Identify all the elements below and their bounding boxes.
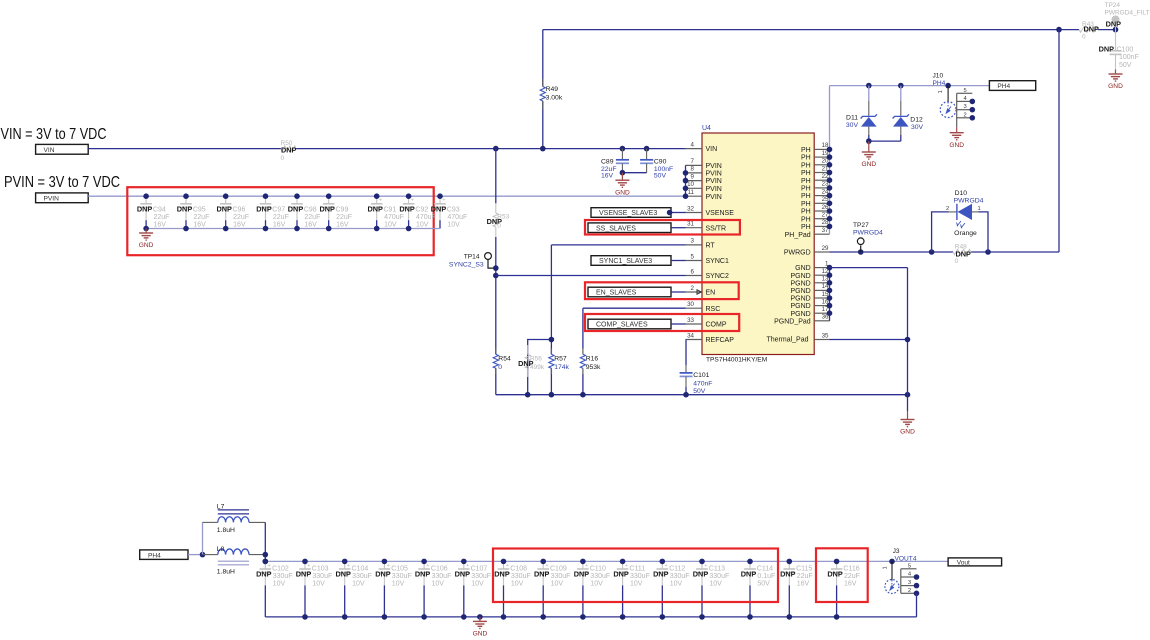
svg-text:PWRGD4_FILT: PWRGD4_FILT [1105,10,1150,17]
svg-text:C107: C107 [471,566,488,573]
svg-text:PVIN: PVIN [706,171,722,178]
svg-text:30: 30 [687,301,694,308]
svg-text:5: 5 [908,563,911,569]
svg-text:L8: L8 [217,546,225,553]
svg-text:DNP: DNP [216,204,232,213]
svg-text:10V: 10V [709,581,722,588]
net label SS_SLAVES [588,223,686,233]
svg-text:+: + [625,563,628,569]
net label COMP_SLAVES [588,319,686,329]
U4 right pin stubs, numbers and names [774,142,829,339]
svg-text:0: 0 [955,258,959,265]
svg-text:16V: 16V [233,221,246,228]
ground below C94 [139,229,154,250]
svg-text:D12: D12 [910,117,923,124]
resistor R16 953k [580,349,601,375]
wire Vout top rail [265,560,948,562]
resistor R50 (DNP 0) in series on VIN wire [281,140,297,162]
svg-text:PGND: PGND [790,288,810,295]
svg-text:5: 5 [964,88,967,94]
svg-text:+: + [379,198,382,204]
svg-text:GND: GND [949,142,964,149]
svg-text:C103: C103 [312,566,329,573]
junctions top bank top rail [143,193,443,199]
svg-text:C114: C114 [757,566,773,573]
svg-text:COMP: COMP [706,322,727,329]
ground below C89/C90 [615,173,630,197]
capacitor C110 (DNP 330uF 10V) [574,561,610,617]
svg-text:32: 32 [687,205,694,212]
capacitor C109 (DNP 330uF 10V) [534,561,570,617]
junctions on VIN wire [493,146,649,152]
capacitor C112 (DNP 330uF 10V) [653,561,689,617]
net label VSENSE_SLAVE3 [591,208,686,218]
wire divider ground rail [496,394,908,396]
svg-text:16V: 16V [797,581,810,588]
svg-text:C108: C108 [510,566,527,573]
capacitor C107 (DNP 330uF 10V) [455,561,491,617]
wire PWRGD_FILT horizontal (net PWRGD4_FILT) [543,29,1116,31]
junction on PWRGD_FILT wire at x=1059 [1056,27,1062,33]
svg-text:330uF: 330uF [630,573,650,580]
svg-text:330uF: 330uF [273,573,293,580]
svg-text:22uF: 22uF [844,573,860,580]
svg-text:DNP: DNP [574,570,590,579]
svg-text:22uF: 22uF [233,214,249,221]
svg-text:GND: GND [795,265,811,272]
svg-text:+: + [545,563,548,569]
net label EN_SLAVES [588,287,701,297]
svg-text:DNP: DNP [256,204,272,213]
wire PH bus vertical [829,86,831,235]
wire joining C89/C90 bottoms [622,172,646,174]
svg-text:U4: U4 [702,125,711,132]
wire R56 jog [528,340,552,395]
svg-text:DNP: DNP [693,570,709,579]
wire RSC to R16 lower [582,374,584,395]
svg-text:DNP: DNP [1099,45,1115,54]
wire VIN net [88,148,685,150]
svg-text:PH4: PH4 [148,552,161,559]
red highlight box around input capacitor bank [127,187,433,255]
svg-text:Thermal_Pad: Thermal_Pad [766,336,808,343]
svg-text:2: 2 [946,206,949,212]
wire SYNC2 net [496,275,686,277]
svg-text:DNP: DNP [375,570,391,579]
svg-text:C101: C101 [693,372,709,379]
test point TP24 PWRGD4_FILT (DNP) [1105,2,1150,30]
svg-text:22uF: 22uF [193,214,209,221]
svg-text:DNP: DNP [335,570,351,579]
svg-text:2: 2 [691,285,695,292]
diode D12 zener 30V [893,86,924,142]
wire PWRGD net [830,251,1060,253]
svg-text:100nF: 100nF [1119,54,1139,61]
svg-text:C91: C91 [384,206,397,213]
svg-text:GND: GND [1108,83,1123,90]
svg-text:+: + [347,563,350,569]
svg-text:DNP: DNP [534,570,550,579]
connector J3 VOUT4 [882,548,919,596]
svg-text:R57: R57 [554,356,567,363]
svg-text:29: 29 [822,245,829,252]
svg-text:GND: GND [861,161,876,168]
svg-text:J10: J10 [933,73,944,80]
svg-text:DNP: DNP [455,570,471,579]
svg-text:30V: 30V [846,122,859,129]
svg-text:1: 1 [978,206,981,212]
svg-text:SYNC1_SLAVE3: SYNC1_SLAVE3 [599,258,652,265]
svg-text:SYNC2_S3: SYNC2_S3 [449,261,484,268]
capacitor C114 (DNP 0.1uF 50V) [741,561,776,617]
wire Thermal_Pad [830,339,908,341]
net label box Vout [948,558,1002,567]
capacitor C89 22uF 16V [601,149,629,180]
svg-text:4: 4 [691,141,695,148]
capacitor C103 (DNP 330uF 10V) [296,561,332,617]
wire PVIN pin bus [685,165,687,196]
svg-text:D11: D11 [846,115,858,122]
ground below divider rail [900,411,915,436]
svg-text:C96: C96 [233,206,246,213]
svg-text:R16: R16 [586,356,599,363]
capacitor C113 (DNP 330uF 10V) [693,561,729,617]
resistor R49 3.00k [540,79,563,110]
svg-text:22uF: 22uF [304,214,320,221]
capacitor C111 (DNP 330uF 10V) [613,561,649,617]
svg-text:10V: 10V [447,221,460,228]
junctions bottom ground rail [302,614,839,620]
svg-text:PH: PH [801,178,811,185]
op-amp U4 IC body TPS7H4001 [702,125,814,364]
svg-text:GND: GND [615,189,630,196]
text PVIN = 3V to 7 VDC [4,174,120,191]
svg-text:C116: C116 [843,566,859,573]
U4 left pin stubs, numbers and names [686,141,735,344]
svg-text:16V: 16V [154,221,167,228]
svg-text:DNP: DNP [367,204,383,213]
junctions PH horizontal [866,83,951,89]
svg-text:+: + [387,563,390,569]
svg-text:C99: C99 [336,206,349,213]
svg-text:PH: PH [801,201,811,208]
svg-text:22uF: 22uF [273,214,289,221]
net label box VIN [36,144,89,154]
svg-text:GND: GND [900,429,915,436]
svg-text:10V: 10V [392,581,405,588]
svg-text:3: 3 [691,238,695,245]
svg-text:8: 8 [691,166,695,173]
svg-text:10V: 10V [352,581,365,588]
svg-text:VSENSE: VSENSE [706,210,735,217]
svg-text:PGND: PGND [790,296,810,303]
svg-text:RSC: RSC [706,306,721,313]
svg-text:Orange: Orange [954,230,977,237]
svg-text:C95: C95 [193,206,206,213]
connector J10 PH4 [933,73,976,128]
junctions top bank bottom rail [143,226,411,232]
svg-text:VIN: VIN [44,147,55,154]
svg-text:50V: 50V [757,581,770,588]
test point TP14 SYNC2_S3 [449,253,496,269]
svg-text:PH: PH [801,162,811,169]
svg-text:3.00k: 3.00k [546,94,563,101]
ground below C100 [1108,70,1123,91]
junction R56/RT [549,337,555,343]
svg-text:10V: 10V [384,221,397,228]
resistor R57 174k [549,349,570,375]
svg-text:C112: C112 [669,566,685,573]
red highlight box output caps group 2 [816,548,868,602]
svg-text:470uF: 470uF [447,214,467,221]
ground below bottom rail [473,617,488,638]
svg-text:DNP: DNP [415,570,431,579]
svg-text:R54: R54 [498,356,511,363]
svg-text:PVIN: PVIN [44,195,60,202]
svg-text:10: 10 [687,181,694,188]
capacitor C90 100nF 50V [640,149,673,180]
svg-text:C89: C89 [601,158,614,165]
svg-text:5: 5 [691,253,695,260]
svg-text:DNP: DNP [1106,19,1122,28]
svg-text:470nF: 470nF [693,380,712,387]
svg-text:+: + [426,563,429,569]
capacitor C91 (DNP 470uF 10V) [367,196,403,228]
wire PH4 to inductors [188,554,203,556]
svg-text:+: + [665,563,668,569]
inductor L7 1.8uH [203,503,266,534]
svg-text:0: 0 [281,155,285,162]
svg-text:C102: C102 [272,566,289,573]
svg-text:10V: 10V [312,581,325,588]
wire GND stub below rail [907,395,909,411]
svg-text:COMP_SLAVES: COMP_SLAVES [596,322,648,329]
svg-text:VSENSE_SLAVE3: VSENSE_SLAVE3 [599,210,657,217]
svg-text:16V: 16V [844,581,857,588]
svg-text:DNP: DNP [780,570,796,579]
svg-text:C110: C110 [590,566,606,573]
svg-text:0: 0 [498,364,502,371]
wire PH horizontal to PH4 label [830,85,990,87]
svg-text:DNP: DNP [399,204,415,213]
svg-text:TP27: TP27 [853,222,869,229]
junction at VSENSE label [667,210,673,216]
svg-text:2: 2 [964,112,967,118]
svg-text:VIN = 3V to 7 VDC: VIN = 3V to 7 VDC [1,126,107,143]
svg-text:PH4: PH4 [933,80,946,87]
capacitor C92 (DNP 470uF 10V) [399,196,435,228]
svg-text:330uF: 330uF [432,573,452,580]
text VIN = 3V to 7 VDC [1,126,107,143]
svg-text:+: + [307,563,310,569]
capacitor C102 (DNP 330uF 10V) [256,561,292,617]
LED D10 PWRGD4 Orange [932,190,988,252]
svg-text:PGND: PGND [790,273,810,280]
svg-text:PH: PH [801,147,811,154]
capacitor C94 (DNP 22uF 16V) [137,196,170,228]
svg-text:+: + [585,563,588,569]
diode D11 zener 30V [846,86,877,142]
svg-text:10V: 10V [416,221,429,228]
svg-text:DNP: DNP [1084,25,1100,34]
wire RSC net [583,308,686,348]
svg-text:3: 3 [908,580,911,586]
svg-text:50V: 50V [654,173,667,180]
svg-text:16V: 16V [601,173,614,180]
svg-text:SYNC1: SYNC1 [706,258,729,265]
capacitor C97 (DNP 22uF 16V) [256,196,289,228]
svg-text:31: 31 [687,221,694,228]
svg-text:C115: C115 [796,566,812,573]
wire center vertical (VIN to divider) x=496 [495,149,497,395]
svg-text:+: + [466,563,469,569]
wire L right vertical [264,522,266,561]
svg-text:+: + [506,563,509,569]
net label box PH4 (bottom) [140,550,188,560]
svg-text:DNP: DNP [288,204,304,213]
svg-text:PVIN: PVIN [706,163,722,170]
junction L8 out [263,552,269,558]
junctions divider ground rail [525,392,910,398]
wire PGND bus vertical [829,268,831,321]
capacitor C93 (DNP 470uF 10V) [431,196,467,228]
svg-text:10V: 10V [670,581,683,588]
svg-text:10V: 10V [551,581,564,588]
junction D11 anode [866,138,872,144]
test point TP27 PWRGD4 [853,222,883,252]
svg-text:3: 3 [964,104,967,110]
svg-text:+: + [704,563,707,569]
svg-text:TPS7H4001HKY/EM: TPS7H4001HKY/EM [706,357,767,364]
svg-text:PH4: PH4 [997,83,1010,90]
svg-text:C100: C100 [1117,47,1134,54]
svg-text:R49: R49 [546,86,559,93]
svg-text:16V: 16V [336,221,349,228]
capacitor C116 (DNP 22uF 16V) [827,561,860,617]
svg-text:PVIN: PVIN [706,194,722,201]
svg-text:SS/TR: SS/TR [706,225,727,232]
red highlight box output caps group 1 [493,549,778,603]
svg-text:D10: D10 [955,190,968,197]
svg-text:C106: C106 [431,566,448,573]
svg-text:PH: PH [801,186,811,193]
resistor R43 (DNP 0) in series on PWRGD_FILT wire [1079,21,1099,41]
red highlight box EN [585,282,739,299]
svg-text:DNP: DNP [494,570,510,579]
svg-text:C92: C92 [415,206,428,213]
svg-text:50V: 50V [1119,62,1132,69]
svg-text:2: 2 [908,588,911,594]
wire top bank bottom rail [146,228,440,230]
junction L branch [200,552,206,558]
svg-text:DNP: DNP [177,204,193,213]
junctions PH bus [827,147,833,230]
svg-text:470uF: 470uF [416,214,436,221]
svg-text:330uF: 330uF [551,573,571,580]
svg-text:1.8uH: 1.8uH [217,568,235,575]
svg-text:22uF: 22uF [797,573,813,580]
svg-text:10V: 10V [590,581,603,588]
capacitor C100 (DNP 100nF 50V) [1099,30,1139,70]
wire bottom ground rail [265,616,916,618]
capacitor C95 (DNP 22uF 16V) [177,196,210,228]
svg-text:VOUT4: VOUT4 [895,556,917,563]
resistor R56 (DNP 499k) [518,345,545,377]
svg-text:J3: J3 [893,548,900,555]
svg-text:+: + [442,198,445,204]
svg-text:7: 7 [691,158,695,165]
svg-text:Vout: Vout [957,560,970,567]
wire GND to right vertical [830,268,908,395]
capacitor C98 (DNP 22uF 16V) [288,196,321,228]
junctions PWRGD net [858,249,991,255]
junction Thermal_Pad [905,337,911,343]
wire PVIN net rail [88,195,685,197]
junctions PVIN bus [683,170,689,199]
svg-text:DNP: DNP [296,570,312,579]
svg-text:10V: 10V [511,581,524,588]
svg-text:10V: 10V [630,581,643,588]
svg-text:470uF: 470uF [384,214,404,221]
svg-text:22uF: 22uF [154,214,170,221]
junction TP14 tap [493,265,499,271]
svg-text:+: + [268,563,271,569]
ground below D11/D12 [861,141,876,168]
svg-text:C104: C104 [352,566,369,573]
svg-text:EN: EN [706,290,716,297]
svg-text:PVIN = 3V to 7 VDC: PVIN = 3V to 7 VDC [4,174,120,191]
net label box PVIN [36,193,89,203]
ground below J10 [949,127,964,149]
svg-text:330uF: 330uF [670,573,690,580]
svg-text:PGND: PGND [790,303,810,310]
capacitor C99 (DNP 22uF 16V) [319,196,352,228]
svg-text:0.1uF: 0.1uF [757,573,775,580]
svg-text:C111: C111 [629,566,645,573]
svg-text:PWRGD4: PWRGD4 [853,229,883,236]
capacitor C101 470nF 50V [680,340,713,395]
svg-text:DNP: DNP [741,570,757,579]
svg-text:6: 6 [691,268,695,275]
resistor R48 (DNP 0) parallel with D10 [953,244,971,265]
svg-text:10V: 10V [471,581,484,588]
wire RT net [551,245,685,395]
svg-text:C90: C90 [654,158,667,165]
svg-text:330uF: 330uF [590,573,610,580]
svg-text:DNP: DNP [319,204,335,213]
svg-text:953k: 953k [586,364,601,371]
wire D11-D12 anodes [869,140,901,142]
svg-text:PWRGD: PWRGD [784,250,811,257]
svg-text:C93: C93 [447,206,460,213]
svg-text:34: 34 [687,332,694,339]
svg-text:DNP: DNP [256,570,272,579]
svg-text:PH: PH [801,209,811,216]
junction Vout rail start [263,559,269,565]
svg-text:TP24: TP24 [1105,2,1121,9]
svg-text:PVIN: PVIN [706,186,722,193]
svg-text:16V: 16V [193,221,206,228]
capacitor C108 (DNP 330uF 10V) [494,561,530,617]
svg-text:PWRGD4: PWRGD4 [954,197,984,204]
svg-text:330uF: 330uF [471,573,491,580]
svg-text:REFCAP: REFCAP [706,337,735,344]
junction C89 bottom [620,170,626,176]
svg-text:TP14: TP14 [464,254,480,261]
svg-text:22uF: 22uF [336,214,352,221]
junctions PGND bus [827,265,833,316]
svg-text:11: 11 [688,189,695,196]
